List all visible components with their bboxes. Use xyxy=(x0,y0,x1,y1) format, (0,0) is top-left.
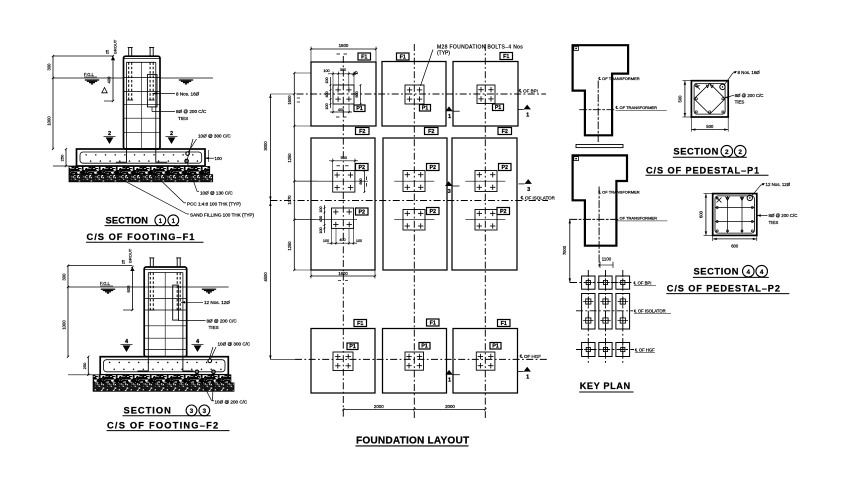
svg-text:10Ø @ 130 C/C: 10Ø @ 130 C/C xyxy=(200,190,233,195)
svg-text:1070: 1070 xyxy=(287,195,292,205)
marker square upper plan xyxy=(574,46,579,50)
anchor bolts embedded dashed F2 xyxy=(149,273,151,311)
leader 12 Nos 12 dia P2 xyxy=(752,185,762,196)
svg-text:8Ø @ 200 C/C: 8Ø @ 200 C/C xyxy=(735,93,764,98)
row1 horizontal centerline - C of BPI xyxy=(297,93,547,95)
svg-text:300: 300 xyxy=(47,63,52,71)
svg-text:3: 3 xyxy=(203,408,207,415)
row2 horizontal centerline - C of ISOLATOR xyxy=(270,200,548,202)
svg-text:7000: 7000 xyxy=(562,245,567,255)
leader 8 dia 200 CC P1 xyxy=(725,95,734,97)
svg-text:500: 500 xyxy=(706,124,714,129)
svg-text:F.G.L: F.G.L xyxy=(84,72,95,77)
svg-text:10Ø @ 300 C/C: 10Ø @ 300 C/C xyxy=(218,342,251,347)
label box F1 row1 col1 xyxy=(358,53,371,60)
svg-text:F1: F1 xyxy=(501,321,507,327)
dimension 400 grout depth xyxy=(112,56,114,101)
pedestal P1 plan row1 col2 xyxy=(405,85,424,104)
svg-text:1100: 1100 xyxy=(602,257,612,262)
leader PCC note xyxy=(151,171,184,203)
label box P1 row1 col1 xyxy=(354,105,365,112)
key plan row B centerline - C of ISOLATOR xyxy=(576,310,633,312)
outer left dimension 3000 and 4500 xyxy=(269,94,271,359)
dimension 600 left P2 xyxy=(704,193,713,195)
section marker 3 row2 right xyxy=(525,179,532,184)
section marker 3 row2 middle xyxy=(445,181,452,186)
slab rebar dots F2 xyxy=(109,362,111,364)
pedestal P2 section outer xyxy=(713,194,757,236)
svg-text:P2: P2 xyxy=(500,209,507,215)
svg-text:℄ OF TRANSFORMER: ℄ OF TRANSFORMER xyxy=(598,190,640,195)
label box P2 col2 lower xyxy=(427,208,440,215)
svg-text:3: 3 xyxy=(190,408,194,415)
key plan footing B3 xyxy=(616,294,630,330)
pedestal P2 plan row2 col2 upper xyxy=(403,171,425,192)
svg-text:100: 100 xyxy=(325,103,329,109)
pedestal P1 rebar circles xyxy=(695,85,697,87)
key plan footing B2 xyxy=(599,294,612,330)
label box F1 row1 col2 xyxy=(397,53,410,60)
section marker 1 row3 right xyxy=(524,367,531,372)
label box P1 row3 col2 xyxy=(419,343,430,350)
svg-text:GROUT: GROUT xyxy=(113,39,118,54)
section marker 1 row1 right xyxy=(524,105,531,110)
svg-text:400: 400 xyxy=(325,91,329,97)
svg-text:P1: P1 xyxy=(422,106,429,112)
svg-text:2: 2 xyxy=(725,149,729,156)
footing F1 plan row1 col2 xyxy=(382,62,446,127)
pedestal detail dim 600 row1 col1 right xyxy=(360,85,362,104)
svg-text:TIES: TIES xyxy=(769,220,779,225)
svg-text:100: 100 xyxy=(319,206,323,212)
svg-text:1: 1 xyxy=(526,375,529,381)
key plan footing C2 xyxy=(599,343,612,357)
leader 8 Nos 16 dia P1 xyxy=(724,73,733,86)
svg-text:100: 100 xyxy=(319,227,323,233)
svg-text:3000: 3000 xyxy=(263,141,268,151)
svg-text:SECTION: SECTION xyxy=(106,216,149,226)
row3 horizontal centerline - C of HGF xyxy=(295,358,547,360)
footing F1 plan row1 col1 xyxy=(311,62,376,126)
pedestal detail dims row1 col1 top xyxy=(332,72,334,86)
svg-text:SAND FILLING 100 THK (TYP): SAND FILLING 100 THK (TYP) xyxy=(190,213,254,218)
svg-text:F.G.L: F.G.L xyxy=(100,281,111,286)
key plan column centerline 2 xyxy=(605,270,607,363)
dimension 1600 top of layout xyxy=(310,47,312,63)
label box F1 row1 col3 xyxy=(500,53,513,60)
bottom dimension 2000 2000 xyxy=(343,408,485,410)
svg-text:100: 100 xyxy=(323,69,329,73)
footing F1 plan row3 col1 xyxy=(311,329,375,394)
svg-text:8Ø @ 200 C/C: 8Ø @ 200 C/C xyxy=(769,213,798,218)
svg-text:600: 600 xyxy=(355,91,359,97)
label box P2 col2 upper xyxy=(427,164,440,171)
section marker 1 row1 middle xyxy=(445,106,452,111)
svg-text:F2: F2 xyxy=(502,129,508,135)
footing F2 plan row2 col1 xyxy=(311,138,375,270)
key plan footing A2 xyxy=(599,276,612,289)
svg-text:25: 25 xyxy=(106,50,110,54)
anchor bolts embedded dashed xyxy=(128,62,130,100)
key plan footing A3 xyxy=(616,276,630,289)
key plan bolts row C xyxy=(586,347,590,351)
FGL line left footing F2 xyxy=(68,286,144,288)
svg-text:F1: F1 xyxy=(361,55,367,61)
svg-text:P1: P1 xyxy=(495,105,502,111)
svg-text:GROUT: GROUT xyxy=(128,248,133,263)
pedestal P1 section outer xyxy=(691,81,728,117)
dimension 7000 left of key plan xyxy=(569,219,571,282)
pedestal P1 plan row1 col3 xyxy=(477,85,495,104)
svg-text:12 Nos. 12Ø: 12 Nos. 12Ø xyxy=(766,182,791,187)
pedestal P1 tie inner square xyxy=(694,83,725,114)
label box F1 row3 col1 xyxy=(354,320,367,327)
leader sand filling note xyxy=(119,178,187,214)
pedestal column of footing F1 xyxy=(124,56,161,149)
footing F1 plan row3 col2 xyxy=(383,329,447,394)
footing F2 plan row2 col3 xyxy=(452,138,517,270)
anchor bolts above pedestal top xyxy=(128,48,130,57)
rail bar below upper plan xyxy=(576,145,623,148)
label box P2 col1 upper xyxy=(356,164,369,171)
key plan row C centerline - C of HGF xyxy=(576,349,634,351)
svg-text:1: 1 xyxy=(526,112,529,118)
sand filling layer hatched xyxy=(69,175,213,182)
key plan footing C3 xyxy=(616,343,630,357)
svg-text:600: 600 xyxy=(359,178,363,184)
label box F1 row3 col2 xyxy=(427,319,440,326)
svg-text:250: 250 xyxy=(82,362,87,369)
PCC layer hatched F2 xyxy=(93,375,231,383)
pedestal P1 plan row3 col1 xyxy=(333,352,353,371)
svg-text:3: 3 xyxy=(448,189,451,195)
leader 8 dia 200 CC P2 xyxy=(757,215,768,217)
key plan column centerline 1 xyxy=(587,270,589,363)
pedestal detail dim 400 row1 col1 bottom xyxy=(332,104,334,114)
label box P1 row3 col1 xyxy=(347,343,358,350)
svg-text:FOUNDATION LAYOUT: FOUNDATION LAYOUT xyxy=(356,435,470,446)
svg-text:℄ OF BPI: ℄ OF BPI xyxy=(518,89,538,94)
svg-text:4500: 4500 xyxy=(263,272,268,282)
svg-text:2000: 2000 xyxy=(445,404,455,409)
lower plan vertical centerline xyxy=(598,187,600,268)
marked rebar circles in slab xyxy=(186,152,190,156)
svg-text:F1: F1 xyxy=(400,55,406,61)
dimension 600 bottom P2 xyxy=(712,235,714,241)
svg-text:P2: P2 xyxy=(358,165,365,171)
leader 8 dia 200 CC ties F2 xyxy=(177,318,179,321)
dimension 250 footing F2 depth xyxy=(87,357,89,375)
pedestal P1 plan row3 col2 xyxy=(405,352,424,370)
svg-text:(TYP): (TYP) xyxy=(437,50,450,56)
svg-text:1250: 1250 xyxy=(287,153,292,163)
svg-text:C/S OF FOOTING–F2: C/S OF FOOTING–F2 xyxy=(107,421,219,431)
svg-text:℄ OF TRANSFORMER: ℄ OF TRANSFORMER xyxy=(615,105,657,110)
pedestal P1 plan row1 col1 with anchor bolts xyxy=(333,85,354,104)
key plan bolts row B lower xyxy=(586,318,591,323)
key plan bolts row A xyxy=(586,280,590,284)
pedestal P2 plan row2 col2 lower xyxy=(403,210,425,231)
svg-text:1250: 1250 xyxy=(287,241,292,251)
svg-text:8 Nos. 16Ø: 8 Nos. 16Ø xyxy=(738,70,761,75)
dimension 500 bottom P1 xyxy=(690,117,692,132)
key plan row A centerline - C of BPI xyxy=(570,282,633,284)
footing F2 slab xyxy=(100,357,228,375)
column ties xyxy=(124,77,161,79)
svg-text:P1: P1 xyxy=(421,344,428,350)
svg-text:25: 25 xyxy=(122,260,126,264)
P2 pedestal local centerlines xyxy=(294,180,368,182)
footing F2 plan row2 col2 xyxy=(383,138,447,270)
tie detail rectangle F2 xyxy=(173,285,179,320)
dimension 600 grout depth F2 xyxy=(131,267,133,310)
svg-text:300: 300 xyxy=(62,273,67,281)
key plan footing A1 xyxy=(582,276,595,289)
svg-text:8Ø @ 200 C/C: 8Ø @ 200 C/C xyxy=(176,109,207,114)
svg-text:400: 400 xyxy=(319,216,323,222)
marked rebar circles in slab F2 xyxy=(208,359,212,363)
dimension 250 footing F1 depth xyxy=(65,149,67,166)
lower plan horizontal centerline xyxy=(570,218,619,220)
layout column centerline C xyxy=(484,44,486,418)
key plan footing C1 xyxy=(582,343,595,357)
pedestal P2 tie inner rect xyxy=(715,196,755,233)
key plan bolts row B upper xyxy=(586,299,591,304)
leader 8 Nos 16 dia xyxy=(153,92,157,94)
dimension 500 left P1 xyxy=(683,80,692,82)
svg-text:P2: P2 xyxy=(501,165,508,171)
svg-text:C/S OF PEDESTAL–P2: C/S OF PEDESTAL–P2 xyxy=(667,283,781,293)
svg-text:KEY PLAN: KEY PLAN xyxy=(580,381,631,391)
svg-text:400: 400 xyxy=(339,238,345,242)
svg-text:300: 300 xyxy=(340,68,346,72)
pedestal detail dims row2 col1 lower left xyxy=(324,205,326,233)
svg-text:P1: P1 xyxy=(349,344,356,350)
svg-text:10Ø @ 300 C/C: 10Ø @ 300 C/C xyxy=(198,134,231,139)
pedestal P2 plan row2 col3 lower xyxy=(475,210,497,231)
pedestal detail dims row2 col1 upper - 500 xyxy=(332,159,334,171)
inner left dimension column 1600/1250/1070/1250 xyxy=(293,73,295,270)
pedestal P2 plan row2 col1 lower xyxy=(332,208,354,228)
transformer plan outline lower xyxy=(573,155,627,245)
svg-text:℄ OF ISOLATOR: ℄ OF ISOLATOR xyxy=(633,308,666,313)
tie detail rectangle xyxy=(147,75,157,107)
svg-text:8 Nos. 16Ø: 8 Nos. 16Ø xyxy=(176,91,200,96)
pedestal P2 inner vertical bars xyxy=(727,196,729,233)
svg-text:F1: F1 xyxy=(503,54,509,60)
label box F2 col3 xyxy=(498,128,512,135)
svg-text:F2: F2 xyxy=(428,129,434,135)
layout column centerline B xyxy=(413,44,415,418)
svg-text:250: 250 xyxy=(60,154,65,161)
svg-text:1: 1 xyxy=(448,114,451,120)
leader 8 dia 200 CC ties xyxy=(151,107,153,112)
upper plan vertical centerline xyxy=(597,81,599,142)
svg-text:8Ø @ 200 C/C: 8Ø @ 200 C/C xyxy=(207,318,238,323)
svg-text:4: 4 xyxy=(760,269,764,276)
svg-text:600: 600 xyxy=(126,285,131,293)
svg-text:C/S OF PEDESTAL–P1: C/S OF PEDESTAL–P1 xyxy=(646,165,760,175)
transformer plan outline upper xyxy=(573,45,629,135)
svg-text:4: 4 xyxy=(747,269,751,276)
label box F1 row3 col3 xyxy=(498,320,511,327)
svg-text:TIES: TIES xyxy=(178,116,188,121)
svg-text:℄ OF HGF: ℄ OF HGF xyxy=(519,354,541,359)
label box P1 row1 col2 xyxy=(420,105,431,112)
label box P2 col3 lower xyxy=(497,208,510,215)
section marker 1 row3 middle xyxy=(445,370,452,375)
dimension 100 slab edge xyxy=(205,157,214,159)
svg-text:F2: F2 xyxy=(359,129,365,135)
svg-text:1: 1 xyxy=(159,218,163,225)
label box P2 col3 upper xyxy=(499,164,512,171)
svg-text:P2: P2 xyxy=(429,209,436,215)
svg-text:1600: 1600 xyxy=(338,271,348,276)
slab rebar dots xyxy=(85,154,87,156)
anchor bolts above F2 pedestal xyxy=(149,258,151,267)
leader 10 dia 130 CC xyxy=(188,163,198,191)
extension lines from inner dim xyxy=(294,72,311,74)
svg-text:TIES: TIES xyxy=(735,99,745,104)
pedestal P1 plan row3 col3 xyxy=(476,352,495,370)
sand filling layer F2 xyxy=(93,383,234,391)
svg-text:100: 100 xyxy=(215,156,223,161)
key plan column centerline 3 xyxy=(622,270,624,363)
footing F1 plan row1 col3 xyxy=(453,62,518,127)
pedestal P2 marked rebar xyxy=(747,195,752,200)
svg-text:1: 1 xyxy=(172,218,176,225)
svg-text:400: 400 xyxy=(338,108,344,112)
svg-text:1600: 1600 xyxy=(287,95,292,105)
svg-text:100: 100 xyxy=(323,239,329,243)
pedestal P1 marked rebar xyxy=(720,84,725,89)
svg-text:1000: 1000 xyxy=(62,320,67,330)
pedestal P2 inner horizontal bars xyxy=(715,207,755,209)
upper plan horizontal centerline xyxy=(580,109,614,111)
svg-text:P1: P1 xyxy=(356,106,363,112)
svg-text:100: 100 xyxy=(356,239,362,243)
svg-text:P2: P2 xyxy=(358,210,365,216)
svg-text:500: 500 xyxy=(677,95,682,103)
svg-text:1000: 1000 xyxy=(47,116,52,126)
svg-text:600: 600 xyxy=(731,243,739,248)
label box P1 row1 col3 xyxy=(493,104,504,111)
pedestal P1 tie hooks xyxy=(696,86,700,90)
pedestal P2 plan row2 col1 upper xyxy=(333,171,355,193)
svg-text:2: 2 xyxy=(738,149,742,156)
svg-text:TIES: TIES xyxy=(209,325,219,330)
svg-text:℄ OF TRANSFORMER: ℄ OF TRANSFORMER xyxy=(598,76,640,81)
pedestal P1 diamond tie xyxy=(694,83,725,114)
svg-text:12 Nos. 12Ø: 12 Nos. 12Ø xyxy=(204,300,230,305)
svg-text:SECTION: SECTION xyxy=(694,267,740,277)
leader 10 dia 200 CC F2 xyxy=(198,374,212,401)
key plan footing B1 xyxy=(582,294,595,330)
marker square lower plan xyxy=(574,157,579,161)
svg-text:SECTION: SECTION xyxy=(673,147,719,157)
column bar hooks into slab F2 xyxy=(138,357,149,371)
FGL line right with earth hatch xyxy=(160,77,213,79)
svg-text:PCC 1:4:8 100 THK (TYP): PCC 1:4:8 100 THK (TYP) xyxy=(187,201,241,206)
PCC layer hatched xyxy=(69,167,210,175)
label box F2 col1 xyxy=(356,128,370,135)
svg-text:P2: P2 xyxy=(429,165,436,171)
svg-text:2000: 2000 xyxy=(374,404,384,409)
warning triangle symbol xyxy=(102,88,107,93)
svg-text:600: 600 xyxy=(698,210,703,218)
FGL line left with earth hatch xyxy=(53,77,124,79)
pedestal P2 rebar circles xyxy=(716,197,718,199)
footing F1 plan row3 col3 xyxy=(453,329,518,394)
svg-text:SECTION: SECTION xyxy=(124,406,172,416)
pedestal P2 tie hooks xyxy=(717,198,722,203)
pedestal detail dim 600 row2 col1 right xyxy=(363,171,365,193)
svg-text:℄ OF BPI: ℄ OF BPI xyxy=(633,280,652,285)
svg-text:℄ OF ISOLATOR: ℄ OF ISOLATOR xyxy=(520,195,556,200)
svg-text:10Ø @ 200 C/C: 10Ø @ 200 C/C xyxy=(215,400,248,405)
footing F1 slab xyxy=(77,149,206,166)
leader 12 Nos 12 dia xyxy=(181,301,185,303)
svg-text:3: 3 xyxy=(527,187,530,193)
dimension 300+1000 left of footing F2 section xyxy=(67,266,69,357)
svg-text:400: 400 xyxy=(107,76,112,84)
svg-text:1600: 1600 xyxy=(339,43,349,48)
label box P2 col1 lower xyxy=(356,208,369,215)
svg-text:℄ OF HGF: ℄ OF HGF xyxy=(634,347,655,352)
svg-text:P1: P1 xyxy=(492,344,499,350)
column ties F2 xyxy=(144,286,187,288)
dimension 300+1000 left of footing F1 section xyxy=(52,56,54,149)
layout column centerline A xyxy=(342,56,344,418)
pedestal column of footing F2 xyxy=(144,267,187,357)
pedestal detail dims row2 col1 lower bottom xyxy=(331,228,333,244)
svg-text:500: 500 xyxy=(341,156,347,160)
column bar hooks into slab xyxy=(116,149,127,162)
svg-text:100: 100 xyxy=(325,77,329,83)
dimension 1600 below row2 col1 xyxy=(310,270,312,279)
svg-text:1: 1 xyxy=(448,378,451,384)
pedestal detail dims row1 col1 left xyxy=(330,77,332,108)
svg-text:F1: F1 xyxy=(357,321,363,327)
FGL line right footing F2 xyxy=(187,286,229,288)
svg-text:C/S OF FOOTING–F1: C/S OF FOOTING–F1 xyxy=(87,232,196,242)
label box F2 col2 xyxy=(425,128,439,135)
pedestal P2 plan row2 col3 upper xyxy=(475,171,497,192)
label box P1 row3 col3 xyxy=(490,343,501,350)
svg-text:℄ OF TRANSFORMER: ℄ OF TRANSFORMER xyxy=(615,216,657,221)
svg-text:F1: F1 xyxy=(430,321,436,327)
